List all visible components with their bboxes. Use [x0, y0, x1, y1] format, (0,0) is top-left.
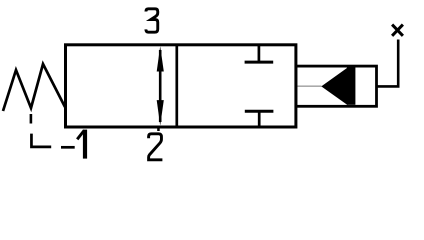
solenoid pilot line	[298, 85, 322, 87]
valve position divider	[175, 45, 178, 127]
flow path arrowhead top	[157, 46, 164, 71]
wire dashed leader horizontal dash	[61, 146, 75, 149]
spring	[3, 64, 65, 111]
solenoid armature bar	[347, 68, 356, 105]
node 1 label stem	[83, 130, 87, 159]
wire to vent	[377, 40, 399, 87]
blocked port bottom bar	[245, 110, 274, 113]
vent cross stroke 1	[392, 25, 403, 36]
flow path arrow tip overshoot below box	[157, 128, 160, 131]
solenoid box	[296, 66, 377, 106]
node 3 label	[146, 9, 158, 32]
node 2 label	[149, 134, 163, 160]
blocked port top bar	[245, 61, 274, 64]
wire dashed leader corner	[31, 134, 51, 147]
flow path arrowhead bottom	[157, 100, 164, 126]
wire dashed leader vertical dash	[30, 114, 33, 124]
blocked port top stem	[258, 45, 261, 62]
vent cross stroke 2	[392, 25, 403, 36]
valve body box	[66, 45, 296, 127]
blocked port bottom stem	[258, 111, 261, 127]
flow path arrow shaft	[159, 50, 162, 122]
node 1 label flag	[77, 130, 84, 139]
solenoid triangle	[321, 68, 347, 105]
